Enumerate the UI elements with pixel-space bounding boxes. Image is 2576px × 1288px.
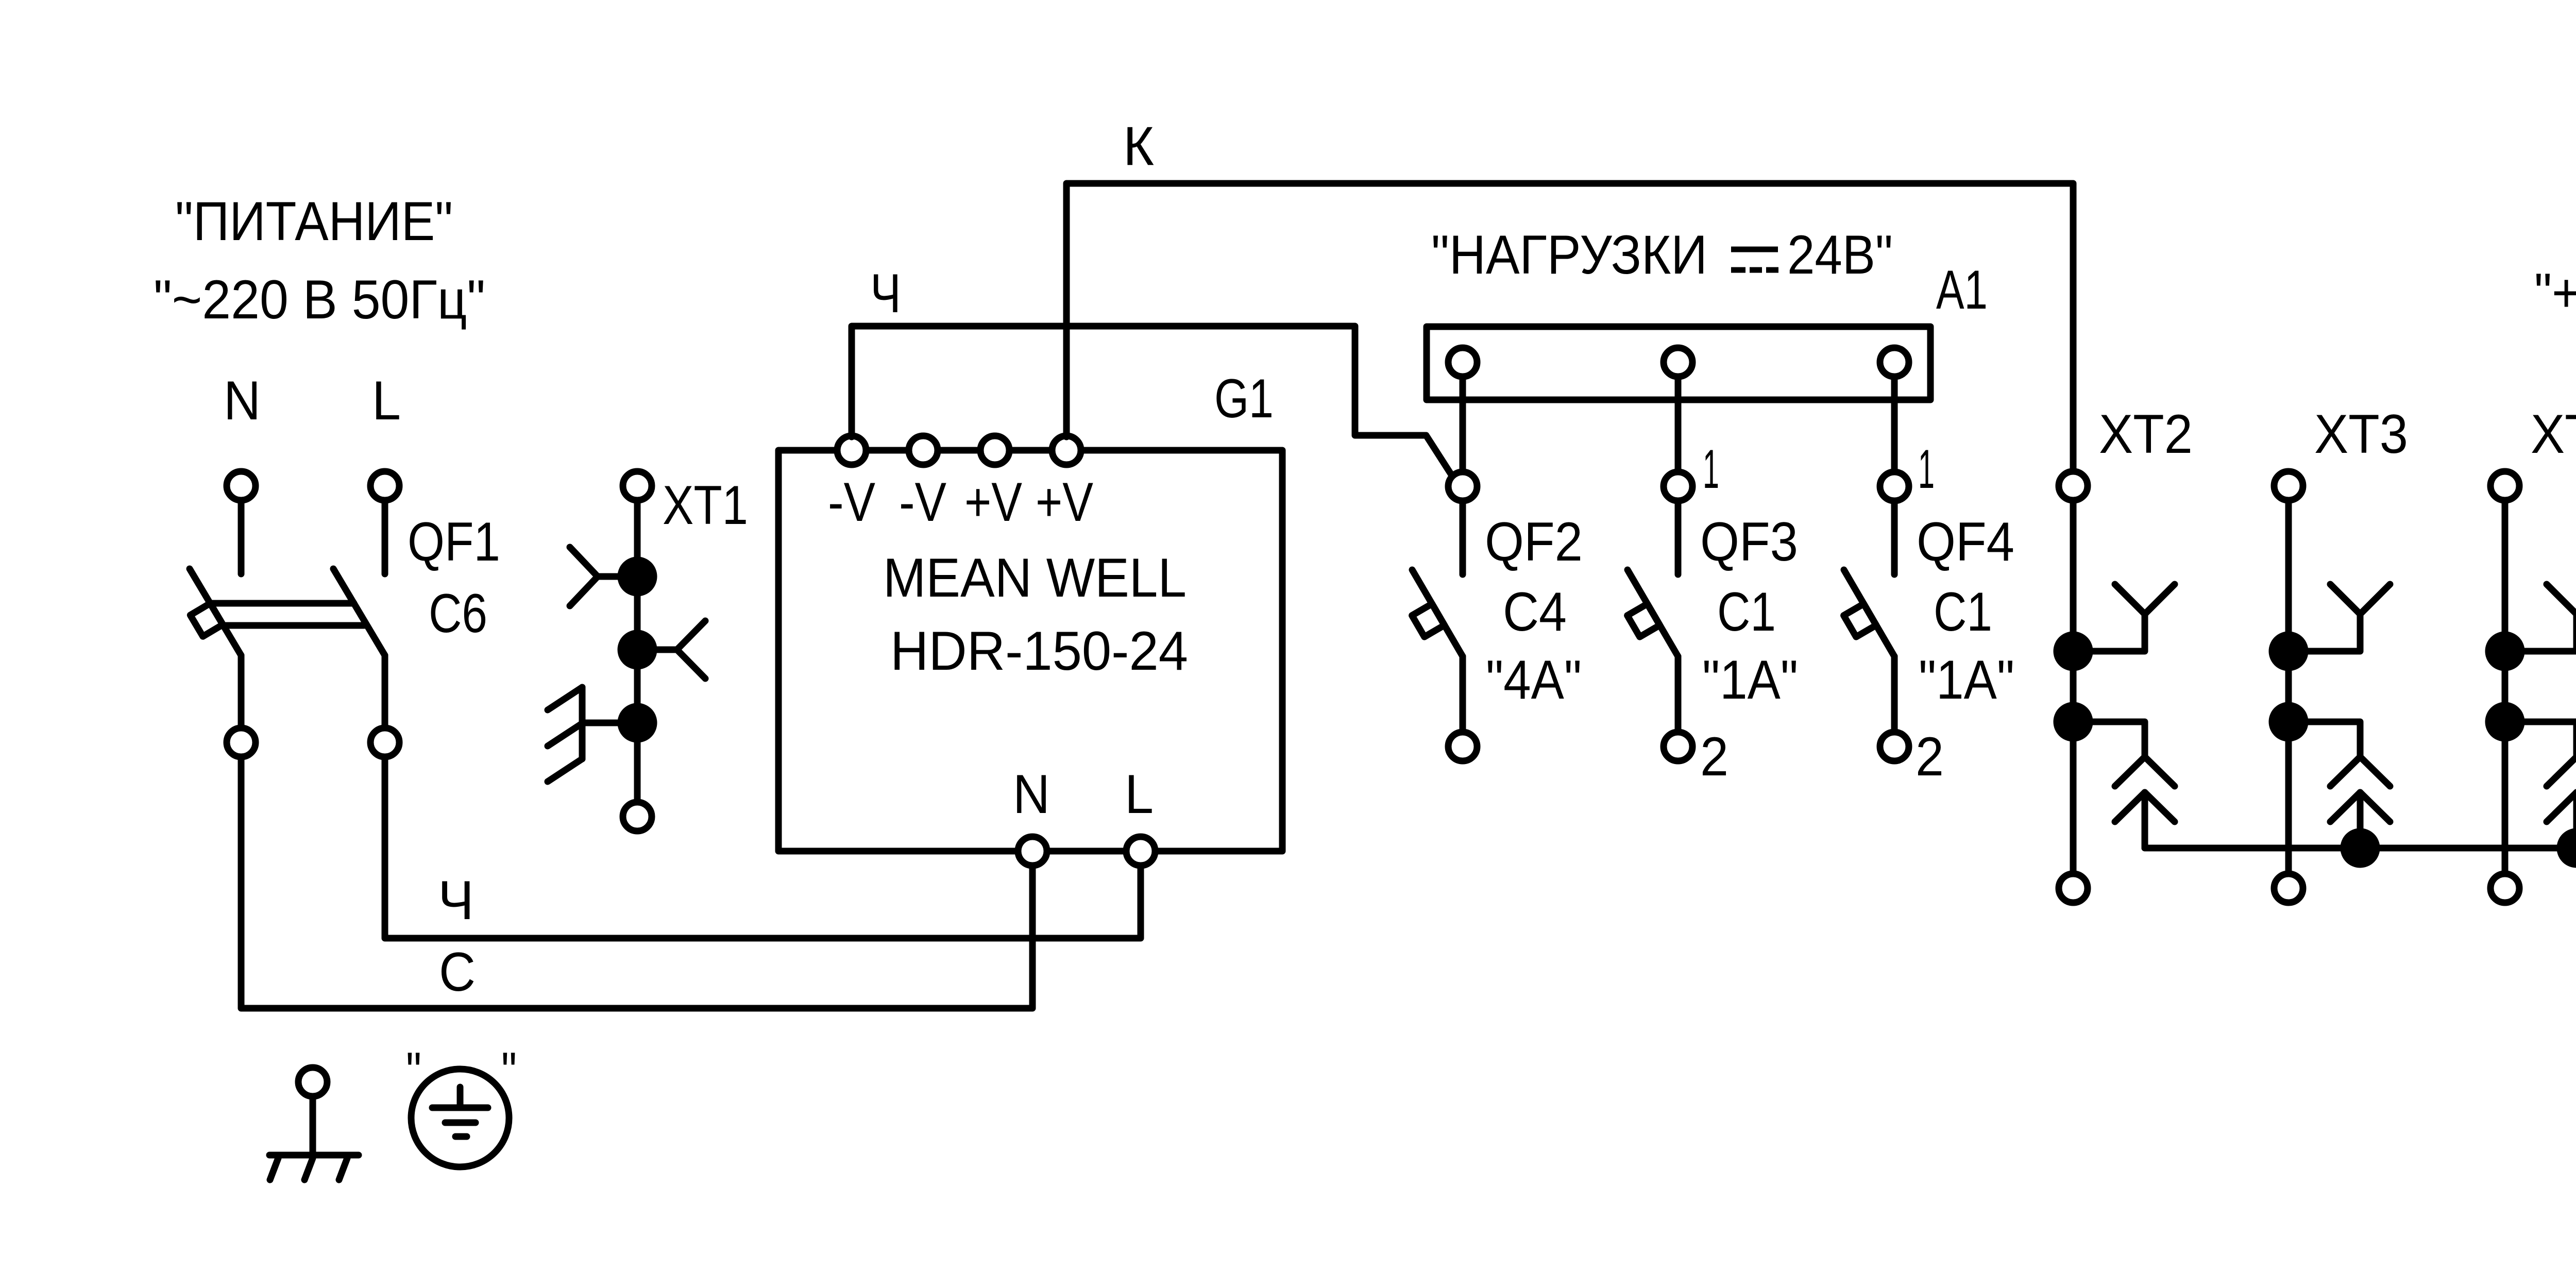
ground tooth 3: [339, 1158, 347, 1180]
QF1 linkage bar upper: [210, 600, 354, 607]
XT3 bus junction dot: [2344, 832, 2377, 865]
svg-text:C1: C1: [1934, 581, 1992, 642]
A1-2 to QF3 wire: [1675, 377, 1682, 472]
svg-text:Ч: Ч: [870, 262, 901, 324]
svg-text:+V: +V: [1036, 471, 1093, 533]
terminal block A1: [1427, 259, 1988, 400]
XT2 junction dot upper: [2057, 635, 2090, 668]
G1 pin +V a: [980, 436, 1009, 465]
QF1 release square: [190, 603, 223, 636]
terminal XT3 column: [2272, 403, 2408, 903]
svg-text:"4А": "4А": [1486, 649, 1582, 710]
svg-text:-V: -V: [828, 471, 875, 533]
XT3 pin arrow: [2330, 792, 2390, 822]
QF3 release square: [1628, 604, 1660, 637]
wire Ч (QF1 L to G1 L): [385, 757, 1141, 938]
A1 box: [1427, 327, 1930, 400]
pin circle: [298, 1067, 327, 1096]
QF3 top terminal: [1664, 472, 1692, 501]
XT4 vertical wire: [2502, 500, 2509, 874]
circuit breaker QF1: [190, 500, 500, 757]
QF2 release square: [1412, 604, 1445, 637]
earth circle: [411, 1069, 509, 1167]
chassis ground bar: [579, 687, 586, 759]
svg-text:1: 1: [1918, 438, 1935, 500]
G1 pin N: [1018, 837, 1047, 866]
XT4 socket lower: [2505, 722, 2576, 757]
svg-text:К: К: [1123, 115, 1154, 177]
pin stem: [310, 1096, 316, 1155]
earth stem: [457, 1087, 464, 1108]
terminal XT2 column: [2057, 403, 2193, 903]
XT2 vertical wire: [2070, 500, 2077, 874]
QF2 stem: [1460, 501, 1466, 574]
wire Ч (G1 -V to QF2): [852, 262, 1453, 477]
G1 pin -V b: [909, 436, 938, 465]
svg-text:Ч: Ч: [438, 869, 474, 931]
XT2 pin arrow: [2115, 792, 2175, 822]
terminal block XT1: [548, 471, 748, 831]
QF4 top terminal: [1880, 472, 1909, 501]
QF4 blade: [1844, 570, 1894, 656]
svg-text:"НАГРУЗКИ: "НАГРУЗКИ: [1431, 224, 1707, 285]
bus wire XT7: [2145, 836, 2576, 897]
G1 pin L: [1126, 837, 1155, 866]
svg-text:+V: +V: [964, 471, 1022, 533]
terminal XT4 column: [2488, 403, 2576, 903]
QF2 top terminal: [1448, 472, 1477, 501]
XT4 junction dot lower: [2488, 705, 2521, 738]
svg-text:": ": [501, 1041, 517, 1103]
G1 pin +V b: [1052, 436, 1081, 465]
QF4 bottom terminal: [1880, 732, 1909, 761]
XT4 socket upper: [2505, 614, 2576, 651]
svg-text:": ": [406, 1041, 421, 1103]
DC symbol dashed line: [1731, 267, 1745, 273]
XT2 top terminal: [2059, 471, 2088, 500]
protective earth symbol: [406, 1041, 517, 1167]
svg-text:N: N: [1013, 763, 1050, 825]
XT1 vertical wire: [634, 500, 641, 802]
svg-text:1: 1: [1703, 438, 1719, 500]
svg-text:G1: G1: [1214, 367, 1274, 429]
QF4 release square: [1844, 604, 1876, 637]
svg-text:"ПИТАНИЕ": "ПИТАНИЕ": [175, 190, 453, 252]
A1 terminal 3: [1880, 348, 1909, 377]
wire C (QF1 N to G1 N): [241, 757, 1032, 1008]
QF3 lower lead: [1675, 656, 1682, 732]
svg-text:2: 2: [1700, 725, 1728, 787]
pin with chassis ground (bottom left): [269, 1067, 359, 1180]
ground tooth 2: [304, 1158, 313, 1180]
G1 pin labels: [828, 471, 1093, 533]
svg-text:"+24В": "+24В": [2534, 262, 2576, 324]
QF4 lower lead: [1891, 656, 1898, 732]
svg-text:24В": 24В": [1787, 224, 1893, 285]
XT1 chassis ground stem: [582, 720, 637, 726]
earth bar long: [432, 1105, 488, 1111]
svg-text:MEAN WELL: MEAN WELL: [883, 547, 1187, 608]
svg-text:QF3: QF3: [1700, 511, 1798, 572]
terminal N: [224, 369, 261, 500]
svg-text:QF4: QF4: [1917, 511, 2014, 572]
XT1 top terminal: [623, 471, 652, 500]
svg-text:QF1: QF1: [408, 511, 500, 572]
QF4 stem: [1891, 501, 1898, 574]
svg-text:XT2: XT2: [2099, 403, 2193, 465]
QF1 pole N lower lead: [238, 655, 245, 728]
breaker QF4: [1844, 377, 2014, 787]
chassis ground hatch 3: [548, 759, 582, 782]
svg-text:A1: A1: [1936, 259, 1988, 320]
chassis ground hatch 2: [548, 723, 582, 746]
svg-text:"1А": "1А": [1919, 649, 2014, 710]
chassis ground hatch 1: [548, 687, 582, 710]
XT4 top terminal: [2490, 471, 2519, 500]
QF1 pole N blade: [190, 569, 241, 655]
svg-text:HDR-150-24: HDR-150-24: [890, 620, 1188, 682]
ground bar: [269, 1152, 359, 1159]
svg-text:C1: C1: [1717, 581, 1776, 642]
QF2 blade: [1412, 570, 1463, 656]
svg-text:"1А": "1А": [1702, 649, 1798, 710]
A1-3 to QF4 wire: [1891, 377, 1898, 472]
XT3 top terminal: [2274, 471, 2303, 500]
QF1 pole L stem: [382, 500, 388, 574]
power supply G1 MEAN WELL HDR-150-24: [778, 367, 1282, 866]
XT1 bottom terminal: [623, 802, 652, 831]
DC symbol solid line: [1731, 249, 1778, 270]
svg-text:C6: C6: [429, 582, 487, 644]
svg-text:2: 2: [1916, 725, 1944, 787]
A1-1 to QF2 wire: [1460, 377, 1466, 472]
XT1 junction dot 1: [621, 560, 654, 593]
XT3 junction dot lower: [2272, 705, 2305, 738]
QF1 pole L lower terminal: [370, 728, 399, 757]
svg-text:XT4: XT4: [2531, 403, 2576, 465]
XT2 bottom terminal: [2059, 874, 2088, 903]
svg-text:С: С: [439, 941, 476, 1003]
XT1 socket 1 (left): [598, 573, 637, 580]
XT2 socket upper: [2073, 614, 2145, 651]
A1 terminal 2: [1664, 348, 1692, 377]
A1 terminal 1: [1448, 348, 1477, 377]
XT2 junction dot lower: [2057, 705, 2090, 738]
XT2 socket lower: [2073, 722, 2145, 757]
XT4 bus junction dot: [2560, 832, 2576, 865]
QF2 lower lead: [1460, 656, 1466, 732]
G1 box: [778, 450, 1282, 851]
QF1 pole L blade: [333, 569, 385, 655]
QF1 linkage bar lower: [224, 622, 364, 629]
wire К (G1 +V to XT2): [1066, 115, 2073, 471]
svg-text:XT3: XT3: [2314, 403, 2408, 465]
terminal L: [370, 369, 401, 500]
svg-text:"~220 В 50Гц": "~220 В 50Гц": [154, 268, 485, 330]
QF3 blade: [1628, 570, 1678, 656]
XT4 pin arrow: [2547, 792, 2576, 822]
G1 pin -V a: [837, 436, 866, 465]
svg-text:XT1: XT1: [663, 474, 748, 536]
QF3 bottom terminal: [1664, 732, 1692, 761]
breaker QF3: [1628, 377, 1798, 787]
XT4 bottom terminal: [2490, 874, 2519, 903]
earth bar middle: [445, 1120, 476, 1126]
XT1 junction dot 2: [621, 633, 654, 666]
ground tooth 1: [270, 1158, 278, 1180]
QF1 pole L lower lead: [382, 655, 388, 728]
label ПИТАНИЕ: [154, 190, 485, 330]
XT1 socket 2 (right): [637, 647, 677, 653]
XT3 socket upper: [2289, 614, 2360, 651]
svg-text:L: L: [1125, 763, 1154, 825]
svg-text:L: L: [372, 369, 401, 431]
XT3 bottom terminal: [2274, 874, 2303, 903]
XT3 socket lower: [2289, 722, 2360, 757]
breaker QF2: [1412, 377, 1583, 761]
XT3 junction dot upper: [2272, 635, 2305, 668]
QF2 bottom terminal: [1448, 732, 1477, 761]
svg-text:QF2: QF2: [1485, 511, 1583, 572]
QF3 stem: [1675, 501, 1682, 574]
svg-text:N: N: [224, 369, 261, 431]
XT3 vertical wire: [2285, 500, 2292, 874]
XT1 junction dot 3: [621, 706, 654, 739]
svg-text:-V: -V: [899, 471, 946, 533]
XT4 junction dot upper: [2488, 635, 2521, 668]
earth bar short: [455, 1133, 467, 1140]
label НАГРУЗКИ 24В: [1431, 224, 1893, 285]
svg-text:C4: C4: [1503, 581, 1567, 642]
QF1 pole N stem: [238, 500, 245, 574]
QF1 pole N lower terminal: [227, 728, 256, 757]
